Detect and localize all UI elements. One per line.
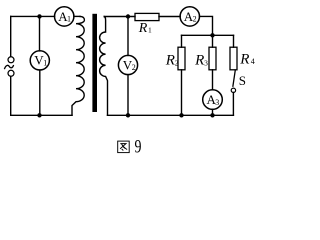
svg-text:1: 1 bbox=[67, 15, 71, 24]
svg-text:9: 9 bbox=[135, 135, 142, 157]
primary winding L1 bbox=[72, 16, 84, 115]
wire R2 bottom bbox=[181, 70, 183, 116]
node V2 bottom bbox=[126, 113, 130, 117]
wire R1 to A2 bbox=[159, 16, 180, 18]
wire parallel bus bbox=[182, 34, 234, 36]
ammeter A1 bbox=[54, 7, 73, 26]
node V1 top bbox=[37, 14, 41, 18]
svg-text:2: 2 bbox=[132, 63, 136, 72]
wire V1 branch lower bbox=[39, 70, 41, 115]
resistor R2 box bbox=[178, 47, 185, 70]
node A3 bottom bbox=[210, 113, 214, 117]
wire R2 stub bbox=[181, 35, 183, 47]
wire R3 to A3 bbox=[212, 70, 214, 90]
terminal lower circle bbox=[8, 70, 14, 76]
wire top-left horizontal bbox=[11, 15, 55, 17]
switch S blade bbox=[233, 70, 235, 86]
transformer core bbox=[92, 14, 97, 112]
voltmeter V1 bbox=[30, 51, 49, 70]
svg-text:R: R bbox=[194, 52, 204, 68]
wire left vertical upper bbox=[10, 16, 12, 56]
wire R3 stub bbox=[212, 35, 214, 47]
ammeter A3 bbox=[203, 90, 223, 110]
svg-text:1: 1 bbox=[148, 25, 152, 34]
wire switch to bottom bbox=[232, 93, 234, 116]
svg-text:S: S bbox=[239, 73, 246, 88]
ammeter A2 bbox=[180, 7, 199, 26]
wire A2 to bus corner bbox=[200, 16, 213, 35]
wire A1 to primary coil bbox=[74, 15, 80, 17]
node V1 bottom bbox=[37, 113, 41, 117]
resistor R4 box bbox=[230, 47, 237, 70]
AC source tilde bbox=[5, 65, 14, 68]
svg-text:R: R bbox=[165, 52, 175, 68]
wire A3 bottom bbox=[212, 109, 214, 115]
wire V1 branch upper bbox=[39, 16, 41, 51]
wire R4 stub bbox=[233, 35, 235, 47]
secondary winding L2 bbox=[100, 17, 108, 116]
svg-text:3: 3 bbox=[215, 98, 219, 107]
svg-text:R: R bbox=[138, 21, 148, 36]
wire V2 branch lower bbox=[127, 75, 129, 116]
svg-text:3: 3 bbox=[204, 58, 208, 67]
node V2 top bbox=[126, 14, 130, 18]
wire left vertical lower bbox=[10, 76, 12, 115]
svg-text:2: 2 bbox=[193, 15, 197, 24]
svg-text:4: 4 bbox=[251, 57, 255, 66]
svg-text:1: 1 bbox=[43, 59, 47, 68]
resistor R1 box bbox=[135, 13, 159, 20]
terminal upper circle bbox=[8, 57, 14, 63]
switch S contact bbox=[231, 88, 235, 92]
wire bottom-left horizontal bbox=[11, 114, 72, 116]
voltmeter V2 bbox=[118, 55, 137, 74]
caption glyph 图 bbox=[118, 141, 130, 153]
wire bottom right horizontal bbox=[108, 114, 234, 116]
wire secondary top bbox=[104, 16, 135, 18]
svg-text:2: 2 bbox=[175, 58, 179, 67]
resistor R3 box bbox=[209, 47, 216, 70]
svg-text:R: R bbox=[239, 51, 249, 67]
node bus center bbox=[210, 33, 214, 37]
node R2 bottom bbox=[179, 113, 183, 117]
wire V2 branch upper bbox=[127, 17, 129, 56]
